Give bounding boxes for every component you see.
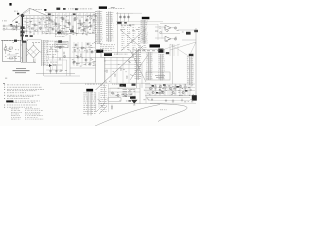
resistor R16 xyxy=(90,13,92,30)
wire xyxy=(171,38,174,40)
bottom right drops xyxy=(147,84,149,95)
transistor Q21 xyxy=(123,16,125,18)
transistor Q11 xyxy=(52,28,54,30)
regulator resistor xyxy=(53,64,56,66)
diode D1 xyxy=(124,22,127,24)
note line 6 xyxy=(4,97,5,100)
transistor Q10 xyxy=(90,25,92,27)
transistor Q13 xyxy=(71,29,73,31)
wire bridge top xyxy=(33,43,35,46)
transistor QR1 xyxy=(59,47,61,49)
transistor Q5 xyxy=(62,18,64,20)
wire xyxy=(56,64,62,66)
wire y=57.6 xyxy=(55,57,101,59)
label blob xyxy=(75,8,78,10)
input text xyxy=(1,20,4,23)
right cluster resistors xyxy=(155,85,157,91)
note logo blob xyxy=(6,100,13,102)
long wire ladders to right section xyxy=(116,21,163,23)
wire transformer to bridge xyxy=(26,48,28,51)
note line 3 xyxy=(4,88,5,91)
note logo text right xyxy=(15,100,17,103)
note line 1 xyxy=(4,84,5,87)
right wires xyxy=(145,83,195,85)
caption small mark xyxy=(5,77,7,80)
caption text line 2 xyxy=(13,69,30,72)
label blob bottom of U3 ladder xyxy=(150,44,161,47)
box interior specks xyxy=(4,48,6,51)
connector J1 input jacks xyxy=(3,25,5,27)
PS output strip ladder xyxy=(41,40,43,66)
wire vertical x=108.5 xyxy=(108,84,110,112)
transistor Q8 xyxy=(80,23,82,25)
cluster box outline xyxy=(110,88,135,96)
connector P2 ladder xyxy=(136,50,138,81)
transistor Q20 xyxy=(119,16,121,18)
text rows below ladders xyxy=(100,44,102,47)
output stage transistor QA xyxy=(111,92,113,94)
wire table X diagonal 2 xyxy=(121,30,145,52)
connector P7 ladder right xyxy=(189,56,191,85)
connector J2 ladder xyxy=(87,92,89,116)
switch S2 xyxy=(10,57,13,59)
table zone darken xyxy=(138,37,139,40)
wire y=13.2 right of ladders xyxy=(116,12,133,14)
wire xyxy=(14,28,21,30)
label blob xyxy=(56,8,60,10)
arrow diagonal 1 xyxy=(96,104,104,112)
wire diagonal to P7 b xyxy=(191,42,197,54)
speaker box horizontal buses xyxy=(105,60,137,62)
wire xyxy=(5,25,12,27)
op-amp small parts xyxy=(156,31,158,32)
caption text line 1 xyxy=(16,67,26,70)
label blob xyxy=(194,30,198,32)
roof left text xyxy=(33,8,34,11)
text band under amp xyxy=(1,39,3,42)
top text row xyxy=(67,8,70,11)
wire vertical x=70 xyxy=(69,35,71,76)
wire y=103.2 right xyxy=(152,102,196,104)
wire top band y=83.2 xyxy=(60,82,150,84)
resistor R9 xyxy=(65,13,67,36)
left cluster extra specks xyxy=(12,25,13,28)
B+ box text xyxy=(114,53,115,56)
wire y=92 mid xyxy=(108,91,140,93)
regulator field verticals xyxy=(52,44,54,70)
wire vertical x=136.5 xyxy=(136,48,138,88)
regulator text xyxy=(50,61,52,64)
AC plug circle xyxy=(4,48,7,51)
bottom right specks extra xyxy=(193,93,194,96)
mid band horizontals xyxy=(72,47,95,49)
wire diagonal to P7 xyxy=(170,44,189,56)
wire y=76 xyxy=(44,75,80,77)
ID box text xyxy=(155,74,165,77)
speaker box parts specks xyxy=(109,80,110,83)
resistor R11 xyxy=(72,13,74,33)
marks under D5 xyxy=(128,100,131,101)
wire bridge bottom xyxy=(33,59,35,63)
wire y=103.6 bus xyxy=(98,103,152,105)
wire xyxy=(178,29,196,31)
resistor R5 xyxy=(51,13,53,33)
wire xyxy=(14,25,21,27)
wire bridge right xyxy=(40,51,42,53)
big diagonal wire xyxy=(96,46,144,90)
wire vertical x=66.5 xyxy=(66,60,68,76)
bridge inner X xyxy=(30,49,37,55)
input cluster specks xyxy=(15,28,16,31)
diagonal X leg 1 xyxy=(130,50,146,82)
ground symbol xyxy=(172,99,174,101)
bus (dark vertical PCB edge) xyxy=(21,14,23,42)
regulator field parts xyxy=(50,47,51,49)
wire xyxy=(182,39,196,41)
resistor network stack xyxy=(123,89,128,91)
diode D5 blob xyxy=(130,96,136,99)
connector P3 ladder xyxy=(148,52,150,80)
mid band specks extra xyxy=(95,49,97,52)
wire vertical x=146 xyxy=(145,84,147,103)
speaker box resistors xyxy=(106,70,107,72)
note logo text row2 xyxy=(7,101,8,104)
bottom right wires extra xyxy=(145,87,195,89)
dark blob x=48 xyxy=(48,13,51,15)
label blob P6 xyxy=(132,84,136,86)
label blob P5 xyxy=(120,84,127,87)
transformer T1 winding ladder xyxy=(21,42,23,62)
wire xyxy=(46,65,49,67)
analog fill verticals xyxy=(50,14,52,34)
resistor R1 xyxy=(12,25,14,26)
left grid extra specks xyxy=(30,31,32,34)
wire table X diagonal 1 xyxy=(120,30,146,52)
label blob xyxy=(63,8,66,10)
wire vertical x=142 xyxy=(141,64,143,89)
wire bus y=18.2 xyxy=(23,17,50,19)
grid parts xyxy=(27,26,28,28)
connector J2 header blob xyxy=(86,89,93,92)
resistor R17 xyxy=(93,13,95,33)
wire top of strip xyxy=(26,39,41,41)
transistor Q4 xyxy=(55,23,57,25)
note box xyxy=(55,41,68,48)
bottom right dark marks xyxy=(152,85,154,87)
note line 8 xyxy=(4,106,5,109)
resistor R13 xyxy=(79,13,81,30)
wire y=13.2 extension to U3 xyxy=(133,12,142,14)
ground symbol 3 xyxy=(165,99,167,101)
label blob xyxy=(117,22,121,24)
speaker box verticals xyxy=(104,57,106,83)
op-amp U5 xyxy=(165,36,171,41)
IC U1 pin ladder xyxy=(97,11,99,45)
label blob xyxy=(70,30,74,32)
component box row xyxy=(141,49,165,53)
wire vertical x=133 xyxy=(132,48,134,57)
wire y=68 xyxy=(70,67,96,69)
relay K2 blob xyxy=(20,31,24,34)
ID box xyxy=(146,72,170,80)
wire xyxy=(5,28,12,30)
transistor Q3 xyxy=(49,19,51,21)
feedback wire xyxy=(160,23,180,25)
bottom right transistor row 2 xyxy=(152,91,154,93)
vertical wire x=117.5 xyxy=(117,12,119,55)
regulator vertical wire x=44 xyxy=(43,62,45,76)
right section diagonal 1 xyxy=(170,42,196,50)
resistor R10 xyxy=(69,13,71,30)
analog extra specks 2 xyxy=(78,26,79,29)
caption text line 3 xyxy=(15,71,26,74)
diagonal X leg 2 xyxy=(130,55,148,80)
note line 7 xyxy=(4,104,5,107)
small box xyxy=(108,98,121,101)
long wire 2 xyxy=(116,23,158,25)
regulator field wires xyxy=(46,57,55,59)
wire to op-amps xyxy=(155,26,165,28)
resistor R2 xyxy=(12,29,14,30)
wire right vertical x=196 xyxy=(195,28,197,95)
transistor Q30 xyxy=(174,27,176,29)
output jack blob xyxy=(192,95,197,100)
text rows along x=101 wire xyxy=(101,84,103,87)
B+ box xyxy=(101,52,133,57)
transistor Q7 xyxy=(74,18,76,20)
resistor R8 xyxy=(62,13,64,33)
transistor Q1 xyxy=(34,24,36,26)
capacitor C1 xyxy=(16,24,18,31)
resistor R40 xyxy=(111,105,113,111)
regulator field text rows xyxy=(47,43,48,46)
wire y=62.5 xyxy=(21,62,36,64)
text band 2 xyxy=(32,41,34,44)
transistor Q14 xyxy=(83,29,85,31)
cable label xyxy=(159,109,162,112)
driver transistor arrow 1 xyxy=(98,99,101,102)
wire y=88.5 mid xyxy=(108,88,140,90)
wire vertical x=104.5 cont xyxy=(104,84,106,104)
right cluster transistors xyxy=(149,87,151,89)
transistor Q2 xyxy=(39,27,41,29)
resistor R6 xyxy=(55,13,57,36)
wire vertical x=104.5 xyxy=(104,57,106,82)
wiring table columns xyxy=(121,26,124,29)
wire to op-amps 2 xyxy=(155,37,165,39)
label blob xyxy=(57,32,61,34)
transistor Q31 xyxy=(174,38,176,40)
label blob xyxy=(166,52,169,54)
fuse F1 blob xyxy=(14,40,17,42)
transistor QR2 xyxy=(64,56,66,58)
regulator cap C11 xyxy=(56,66,58,74)
label blob on roof xyxy=(17,13,19,15)
analog specks xyxy=(82,33,83,36)
P7 header blob xyxy=(189,54,194,56)
output stage transistor QB xyxy=(117,94,119,96)
relay K1 blob xyxy=(20,26,24,29)
dark row under grid xyxy=(20,34,23,36)
label blob roof right xyxy=(44,9,46,11)
wire from box to transformer xyxy=(21,44,23,46)
wire xyxy=(46,69,62,71)
wire roof diagonal left xyxy=(12,8,30,21)
transistor Q12 xyxy=(59,30,61,32)
resistor R7 xyxy=(58,13,60,30)
connector P4 ladder xyxy=(160,54,162,81)
note line 5 xyxy=(4,94,5,97)
resistor R4 xyxy=(48,13,50,30)
bridge rectifier BR1 diamond xyxy=(28,45,40,58)
IC U3 header bar xyxy=(142,17,150,19)
wire vertical x=140 xyxy=(139,84,141,104)
op-amp inter wires xyxy=(157,24,159,40)
wire apex drop xyxy=(29,8,31,14)
label blob xyxy=(58,40,62,42)
wire xyxy=(171,27,174,29)
right specks xyxy=(189,94,190,97)
transistor Q22 xyxy=(127,16,129,18)
wire roof inner line xyxy=(20,10,31,17)
op-amp U4 xyxy=(165,25,171,30)
AC input box xyxy=(3,40,21,61)
analog fill extra specks xyxy=(85,19,87,22)
IC U3 pin ladder xyxy=(142,20,144,44)
B+ label blob xyxy=(104,53,112,56)
parts table xyxy=(11,108,13,111)
page mark (black square) xyxy=(9,3,11,6)
grid verticals xyxy=(26,16,28,35)
transistor Q6 xyxy=(68,22,70,24)
right mid verticals xyxy=(172,44,174,84)
text band right part xyxy=(45,40,46,43)
note line 4 xyxy=(4,92,5,95)
inductor L1 dark blob xyxy=(158,49,163,53)
mid band resistors xyxy=(74,50,75,52)
resistor R12 xyxy=(76,13,78,36)
box interior wires xyxy=(7,54,17,56)
mid band verticals xyxy=(73,42,75,66)
wire y=73.7 xyxy=(36,73,75,75)
text rows above note box xyxy=(55,31,57,34)
input cluster dark marks xyxy=(10,24,12,25)
mid analog cluster xyxy=(75,44,77,46)
left grid row wires xyxy=(23,20,50,22)
transistor Q9 xyxy=(86,19,88,21)
cable curve 2 xyxy=(95,105,160,127)
bottom right verticals strong xyxy=(149,84,151,97)
text right of header xyxy=(109,7,110,10)
output parts xyxy=(124,94,126,97)
parts right of ladder xyxy=(121,24,122,27)
cable curve 1 xyxy=(150,104,187,122)
wire main bus y=12.6 xyxy=(45,12,96,14)
regulator diode xyxy=(49,64,52,67)
mid bottom specks xyxy=(123,93,125,96)
wire x=35 down xyxy=(34,59,36,63)
input squiggle xyxy=(14,10,16,13)
regulator cap C10 xyxy=(50,67,52,74)
note line 2 xyxy=(4,86,5,89)
bottom right extra dark specks xyxy=(161,90,163,93)
resistor R14 xyxy=(83,13,85,33)
plug wires xyxy=(5,44,7,48)
switch S1 xyxy=(10,47,13,49)
notes heading xyxy=(3,82,5,85)
wire top bus y=15.6 xyxy=(22,15,95,17)
wire roof diagonal right xyxy=(30,8,48,16)
driver transistor arrow 2 xyxy=(101,105,104,108)
ground symbol 2 xyxy=(151,98,153,100)
ground under triangle xyxy=(133,104,135,105)
label blob dark xyxy=(96,50,103,53)
right section diagonal 2 xyxy=(162,44,180,50)
IC U1 header bar xyxy=(99,6,107,8)
wire vertical x=95.5 xyxy=(95,13,97,83)
op-amp area specks xyxy=(166,30,168,33)
thermal diode triangle xyxy=(131,100,138,104)
bus top blob xyxy=(21,15,24,17)
band text xyxy=(85,83,86,86)
dark blob x=73 xyxy=(73,13,76,15)
component cluster blob xyxy=(186,32,191,35)
left grid specks xyxy=(31,17,33,20)
IC U2 pin ladder xyxy=(108,12,110,43)
text under grid xyxy=(24,30,25,33)
transformer top blob xyxy=(22,41,26,43)
ground symbol 4 xyxy=(181,99,183,101)
wire down from J2 xyxy=(95,92,97,112)
note box text xyxy=(56,42,66,45)
resistor R15 xyxy=(86,13,88,36)
PS box interior extra xyxy=(8,48,10,51)
arrow diagonal 2 xyxy=(99,106,107,114)
wire mid y=33.5 xyxy=(45,33,95,35)
